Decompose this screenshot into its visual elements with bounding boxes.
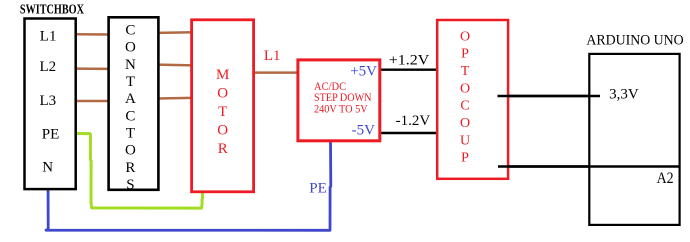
svg-text:U: U — [460, 133, 470, 148]
svg-text:P: P — [461, 47, 469, 62]
svg-text:C: C — [125, 108, 135, 124]
svg-text:O: O — [460, 29, 470, 44]
svg-text:+5V: +5V — [350, 64, 377, 80]
svg-text:C: C — [125, 22, 135, 38]
svg-text:L1: L1 — [40, 29, 57, 45]
svg-text:+1.2V: +1.2V — [389, 53, 430, 69]
svg-text:-5V: -5V — [352, 123, 375, 139]
svg-text:L2: L2 — [40, 59, 57, 75]
svg-text:O: O — [125, 40, 136, 56]
svg-text:T: T — [126, 74, 135, 90]
svg-text:240V TO 5V: 240V TO 5V — [314, 102, 368, 116]
svg-text:O: O — [460, 81, 470, 96]
svg-text:C: C — [460, 99, 469, 114]
svg-text:O: O — [217, 86, 228, 102]
svg-text:-1.2V: -1.2V — [396, 113, 431, 129]
svg-text:O: O — [217, 122, 228, 138]
svg-text:ARDUINO UNO: ARDUINO UNO — [586, 32, 683, 48]
svg-text:O: O — [125, 143, 136, 159]
svg-text:T: T — [126, 126, 135, 142]
svg-text:L1: L1 — [264, 48, 281, 64]
svg-text:P: P — [461, 151, 469, 166]
svg-text:R: R — [125, 160, 135, 176]
svg-text:N: N — [125, 57, 136, 73]
svg-text:A2: A2 — [657, 170, 674, 187]
svg-text:M: M — [216, 67, 229, 83]
svg-text:3,3V: 3,3V — [609, 86, 639, 102]
svg-text:R: R — [218, 141, 228, 157]
svg-text:A: A — [125, 91, 136, 107]
svg-text:T: T — [218, 104, 227, 120]
svg-text:O: O — [460, 116, 470, 131]
svg-text:N: N — [42, 160, 53, 176]
svg-text:S: S — [126, 177, 134, 193]
svg-text:PE: PE — [42, 127, 60, 143]
svg-text:PE: PE — [309, 181, 327, 197]
svg-text:L3: L3 — [40, 93, 57, 109]
svg-text:SWITCHBOX: SWITCHBOX — [20, 2, 84, 17]
svg-text:T: T — [461, 64, 470, 79]
